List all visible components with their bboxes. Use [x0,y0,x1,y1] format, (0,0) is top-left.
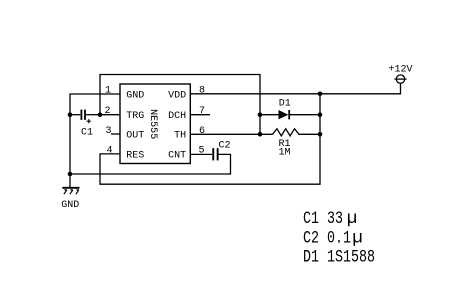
pin 2 TRG label [104,106,144,122]
svg-text:GND: GND [126,90,144,101]
wire pin6 TH to R1 left lead [190,133,272,135]
node junction VDD wire / right column [318,92,323,97]
svg-text:µ: µ [352,228,363,248]
wire pin5 CNT to C2 [190,153,212,155]
svg-text:1: 1 [105,86,111,97]
svg-text:8: 8 [199,86,205,97]
svg-text:NE555: NE555 [147,109,158,139]
node junction D1 cathode / right column [318,112,323,117]
svg-text:+12V: +12V [389,65,413,76]
diode D1 [279,99,291,120]
svg-text:C2 0.1: C2 0.1 [303,228,351,248]
wire C1 left lead [70,114,80,116]
svg-text:C2: C2 [218,141,230,152]
svg-text:3: 3 [105,126,111,137]
wire pin1 to ground vertical [70,94,120,187]
svg-text:TRG: TRG [126,111,144,122]
node junction ground rail [68,172,73,177]
svg-text:4: 4 [106,146,112,157]
wire D1 cathode lead [290,114,320,116]
pin 7 DCH label [168,106,205,122]
power +12V symbol [389,65,413,84]
svg-text:D1: D1 [279,99,291,110]
wire pin2 TRG stub [100,114,120,116]
svg-text:D1 1S1588: D1 1S1588 [303,247,375,267]
ground symbol [61,188,79,211]
node junction TH row / anode column [258,132,263,137]
node junction D1 anode column [258,112,263,117]
wire D1 anode lead [260,114,279,116]
svg-text:VDD: VDD [168,90,186,101]
svg-text:µ: µ [347,209,358,229]
svg-text:6: 6 [199,126,205,137]
wire pin8 VDD to +12V [190,83,400,93]
wire C2 right lead to ground rail [70,154,231,174]
node junction C1 left / ground column [68,112,73,117]
svg-text:GND: GND [61,200,79,211]
node junction pin2/C1/top-loop [98,112,103,117]
wire C1 right lead [86,114,100,116]
pin 3 OUT label [105,126,144,142]
svg-text:C1 33: C1 33 [303,209,343,229]
parts list C1 value [303,209,357,230]
svg-text:TH: TH [174,131,186,142]
wire pin3 OUT stub [111,133,120,135]
capacitor C2 [212,141,230,161]
pin 6 TH label [174,126,205,142]
op-amp U1 NE555 IC body [120,84,190,164]
pin 5 CNT label [168,146,204,162]
resistor R1 zigzag [273,129,321,136]
resistor R1 value labels [278,139,290,158]
svg-text:DCH: DCH [168,111,186,122]
parts list D1 value [303,247,375,267]
pin 8 VDD label [168,86,205,102]
svg-text:OUT: OUT [126,131,144,142]
parts list C2 value [303,228,363,249]
pin 1 GND label [105,86,144,102]
wire pin4 RES to bottom rail to VDD column [100,94,320,184]
capacitor C1 [81,110,94,139]
svg-text:C1: C1 [81,127,93,138]
svg-text:RES: RES [126,150,144,161]
svg-text:CNT: CNT [168,150,186,161]
wire pin7 DCH stub [190,114,210,116]
wire trigger loop: node to top wire to D1 anode column [100,75,260,135]
node junction R1 right / right column [318,132,323,137]
svg-text:1M: 1M [278,147,290,158]
pin 4 RES label [106,146,144,162]
